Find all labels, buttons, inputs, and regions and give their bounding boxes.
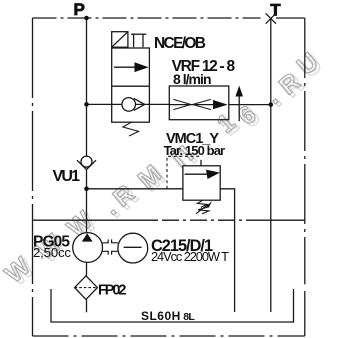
watermark: [0, 48, 327, 292]
svg-text:24Vcc 2200W T: 24Vcc 2200W T: [151, 249, 229, 264]
svg-text:8 l/min: 8 l/min: [173, 71, 212, 87]
suction filter FP02: [75, 276, 98, 300]
flow regulator VRF 12-8: [169, 86, 229, 120]
return spring: [123, 122, 139, 136]
wire junction to VMC inlet: [87, 188, 183, 190]
svg-text:2,50cc: 2,50cc: [33, 245, 71, 260]
enclosure border top: [33, 17, 261, 19]
node junction VMC inlet: [84, 187, 89, 192]
node junction T-line: [269, 102, 274, 107]
wire T vertical line: [270, 18, 272, 312]
wire NCE to VRF: [149, 103, 169, 105]
check ball in bottom position: [112, 103, 150, 105]
excess-flow arrow to tank: [235, 86, 243, 122]
tank SL60H: [51, 289, 294, 322]
svg-text:VU1: VU1: [53, 168, 81, 185]
adjustable spring: [197, 201, 207, 208]
wire P vertical main: [86, 18, 88, 156]
flow arrow in top position: [114, 66, 137, 68]
node T boundary crossing star: [266, 13, 276, 23]
check valve VU1: [77, 156, 96, 170]
svg-text:P: P: [74, 0, 85, 19]
regulator arrow: [213, 100, 228, 109]
sub-assembly boundary: [33, 219, 159, 221]
wire branch to NCE valve: [87, 103, 112, 105]
relief valve VMC1_Y: [167, 156, 220, 214]
svg-text:T: T: [270, 0, 281, 19]
enclosure border right: [304, 18, 306, 284]
wire VRF to T-line junction: [229, 104, 271, 106]
restrictor curves: [173, 99, 210, 109]
svg-text:FP02: FP02: [98, 283, 127, 299]
shaft coupling: [103, 239, 119, 254]
pump PG05: [73, 233, 103, 263]
solenoid coil symbol: [112, 32, 128, 48]
node P junction on border: [84, 16, 89, 21]
electric motor C215/D/1: [118, 233, 148, 263]
svg-text:NCE/OB: NCE/OB: [154, 35, 206, 52]
solenoid valve NCE/OB: [112, 32, 150, 136]
manual override connector: [131, 33, 147, 35]
wire pump suction to filter: [86, 262, 88, 275]
wire filter to tank: [86, 299, 88, 312]
enclosure border bottom: [33, 335, 305, 337]
svg-text:8L: 8L: [183, 311, 195, 323]
svg-text:SL60H: SL60H: [141, 309, 180, 323]
enclosure border left: [32, 18, 34, 336]
node junction P-branch: [84, 102, 89, 107]
wire VMC outlet to tank: [220, 189, 234, 312]
pilot line (dashed): [167, 156, 201, 189]
svg-text:Tar. 150 bar: Tar. 150 bar: [164, 143, 226, 158]
